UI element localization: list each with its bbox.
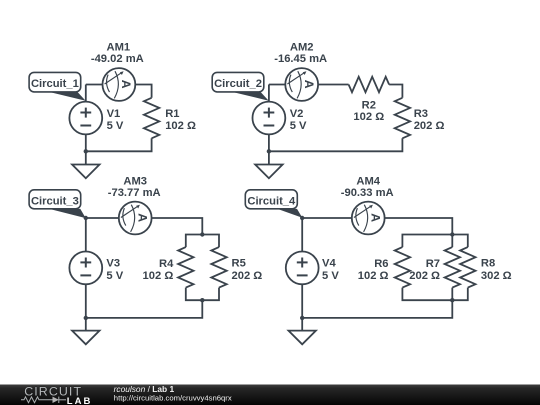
wire R2 to R3 top corner — [389, 85, 402, 98]
svg-text:Circuit_1: Circuit_1 — [31, 78, 79, 90]
node flag Circuit_1 — [29, 72, 86, 100]
ground C1 — [72, 165, 99, 179]
svg-text:102 Ω: 102 Ω — [353, 111, 384, 123]
junction dot C2 — [267, 149, 271, 153]
svg-text:5 V: 5 V — [290, 120, 307, 132]
ground C2 — [255, 165, 282, 179]
svg-text:202 Ω: 202 Ω — [414, 120, 445, 132]
voltage source V4 — [286, 252, 319, 285]
junction dot C3 top — [200, 232, 204, 236]
svg-text:R3: R3 — [414, 108, 428, 120]
ammeter AM3 — [119, 202, 152, 235]
voltage source V3 — [69, 252, 102, 285]
resistor R3 — [395, 98, 410, 139]
svg-text:AM4: AM4 — [356, 176, 380, 188]
junction dot C4 rail — [300, 316, 304, 320]
logo schematic squiggle: wire, resistor zigzag, diode — [21, 397, 66, 403]
node flag Circuit_3 — [29, 190, 86, 218]
wire R7 top lead — [451, 235, 453, 248]
wire V3 top lead — [85, 218, 87, 252]
wire parallel bottom to rail C4 — [302, 300, 452, 318]
svg-text:R8: R8 — [481, 258, 495, 270]
voltage source V1 — [69, 102, 102, 135]
svg-text:V2: V2 — [290, 108, 304, 120]
junction dot C3 bottom — [200, 298, 204, 302]
resistor R4 — [178, 247, 193, 288]
wire R7 bottom lead — [451, 288, 453, 301]
wire AM3 to parallel top — [152, 218, 202, 235]
svg-text:102 Ω: 102 Ω — [143, 270, 174, 282]
wire V4 top lead — [301, 218, 303, 252]
wire ground stem C1 — [85, 151, 87, 164]
ammeter AM2 — [285, 68, 318, 101]
wire parallel bottom rail — [186, 288, 219, 301]
svg-text:102 Ω: 102 Ω — [165, 120, 196, 132]
wire R1 bottom to rail — [86, 138, 152, 151]
svg-text:V4: V4 — [322, 258, 336, 270]
wire node to AM4 — [302, 217, 352, 219]
wire top-left V1 to AM1 — [86, 84, 103, 86]
svg-text:Circuit_3: Circuit_3 — [31, 196, 79, 208]
svg-text:AM1: AM1 — [106, 41, 130, 53]
wire parallel bottom rail C4 — [402, 288, 467, 301]
svg-text:R4: R4 — [159, 258, 174, 270]
svg-text:R6: R6 — [374, 258, 388, 270]
resistor R1 — [144, 98, 159, 139]
node dot C3 — [84, 216, 88, 220]
svg-text:5 V: 5 V — [106, 270, 123, 282]
svg-text:5 V: 5 V — [107, 120, 124, 132]
junction dot C1 — [84, 149, 88, 153]
svg-text:Circuit_2: Circuit_2 — [214, 78, 262, 90]
svg-text:LAB: LAB — [67, 396, 93, 405]
svg-text:-16.45 mA: -16.45 mA — [274, 53, 327, 65]
svg-text:202 Ω: 202 Ω — [409, 270, 440, 282]
wire R3 bottom to rail — [269, 138, 403, 151]
svg-text:V1: V1 — [107, 108, 121, 120]
wire ground stem C2 — [268, 151, 270, 164]
wire V1 bottom lead — [85, 134, 87, 151]
svg-text:202 Ω: 202 Ω — [232, 270, 263, 282]
svg-text:-49.02 mA: -49.02 mA — [91, 53, 144, 65]
wire V2 top lead — [268, 85, 270, 102]
node dot C4 — [300, 216, 304, 220]
wire AM2 to R2 — [318, 84, 349, 86]
wire top-left V2 to AM2 — [269, 84, 285, 86]
wire ground stem C4 — [301, 318, 303, 331]
resistor R7 — [445, 247, 460, 288]
resistor R2 — [349, 77, 390, 92]
voltage source V2 — [253, 102, 286, 135]
wire parallel bottom to rail — [86, 300, 203, 318]
junction dot C3 rail — [84, 316, 88, 320]
svg-text:Circuit_4: Circuit_4 — [247, 196, 296, 208]
wire parallel top rail C4 — [402, 235, 467, 248]
resistor R6 — [395, 247, 410, 288]
wire parallel top rail — [186, 235, 219, 248]
svg-text:R2: R2 — [362, 99, 376, 111]
resistor R5 — [211, 247, 226, 288]
ground C4 — [289, 331, 316, 345]
junction dot C4 bottom — [450, 298, 454, 302]
svg-text:R1: R1 — [165, 108, 179, 120]
svg-text:R5: R5 — [232, 258, 246, 270]
ammeter AM4 — [352, 202, 385, 235]
ammeter AM1 — [103, 68, 136, 101]
wire AM4 to parallel top — [385, 218, 453, 235]
svg-text:-90.33 mA: -90.33 mA — [341, 187, 394, 199]
wire AM1 to R1 top — [135, 85, 151, 98]
ground C3 — [72, 331, 99, 345]
svg-text:http://circuitlab.com/cruvvy4s: http://circuitlab.com/cruvvy4sn6qrx — [114, 393, 232, 402]
wire V4 bottom lead — [301, 284, 303, 318]
node flag Circuit_2 — [212, 72, 269, 100]
wire V3 bottom lead — [85, 284, 87, 318]
node flag Circuit_4 — [245, 190, 302, 218]
svg-text:102 Ω: 102 Ω — [358, 270, 389, 282]
wire ground stem C3 — [85, 318, 87, 331]
svg-text:-73.77 mA: -73.77 mA — [108, 187, 161, 199]
svg-text:5 V: 5 V — [322, 270, 339, 282]
svg-text:302 Ω: 302 Ω — [481, 270, 512, 282]
wire V1 top lead — [85, 85, 87, 102]
junction dot C4 top — [450, 232, 454, 236]
svg-text:AM2: AM2 — [290, 41, 314, 53]
svg-text:R7: R7 — [426, 258, 440, 270]
wire V2 bottom lead — [268, 134, 270, 151]
svg-text:AM3: AM3 — [123, 176, 147, 188]
resistor R8 — [460, 247, 475, 288]
svg-text:V3: V3 — [106, 258, 120, 270]
wire node to AM3 — [86, 217, 119, 219]
